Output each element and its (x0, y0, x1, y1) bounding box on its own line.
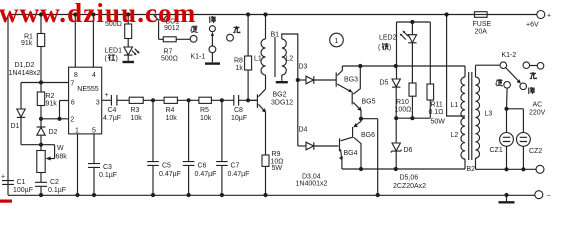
watermark red streak bottom left (0, 200, 12, 203)
wire bottom push-pull line y169 (342, 168, 465, 170)
node dots AC line (504, 167, 525, 171)
svg-text:L1: L1 (254, 56, 262, 63)
node dots y169 (359, 167, 398, 171)
node dot D3/D4 column top (296, 78, 300, 82)
terminal +6V (526, 11, 551, 29)
svg-text:L1: L1 (451, 102, 459, 109)
svg-text:3: 3 (96, 100, 100, 107)
diode D2 (37, 119, 58, 145)
svg-text:+: + (1, 174, 5, 181)
svg-text:1k: 1k (236, 65, 244, 72)
svg-text:C8: C8 (234, 107, 243, 114)
contact ting K1-1 (209, 26, 215, 32)
resistor R10 100ohm (395, 83, 417, 118)
wire collector bus y66 (342, 65, 465, 67)
transistor BG2 3DG12 (248, 75, 293, 155)
svg-text:CZ2: CZ2 (529, 148, 542, 155)
diode D3 (298, 64, 336, 84)
svg-text:D5,06: D5,06 (400, 175, 419, 182)
contact ni K1-2 (504, 82, 511, 89)
pole and arm K1-1 (209, 46, 216, 53)
svg-text:C3: C3 (103, 164, 112, 171)
wire K1-1 to ground (211, 53, 213, 63)
svg-text:1: 1 (75, 128, 79, 135)
svg-text:BG3: BG3 (344, 77, 358, 84)
node dots top rail (39, 12, 449, 16)
wire output node to down column (361, 119, 378, 195)
svg-text:C5: C5 (162, 163, 171, 170)
transistor BG6 (353, 119, 376, 169)
wire pin2 line (41, 118, 69, 120)
node dots on y66 (358, 64, 398, 68)
svg-text:L2: L2 (451, 132, 459, 139)
wire L2 top to D3/D4 column (282, 34, 298, 146)
wire D1-D2-wiper line (21, 144, 55, 146)
ground chassis bottom (499, 195, 515, 202)
svg-text:+: + (547, 13, 551, 20)
svg-text:−: − (547, 193, 551, 200)
svg-text:+6V: +6V (526, 22, 539, 29)
winding L2 of B1 (282, 39, 287, 75)
svg-text:BG2: BG2 (273, 92, 287, 99)
resistor R2 91k (37, 83, 57, 119)
fuse FUSE 20A (473, 12, 492, 36)
switch K1-2 (476, 52, 544, 94)
svg-text:D4: D4 (299, 127, 308, 134)
svg-text:50W: 50W (431, 119, 446, 126)
svg-text:R11: R11 (431, 102, 443, 109)
svg-text:C1: C1 (17, 179, 26, 186)
svg-text:8: 8 (74, 72, 78, 79)
svg-text:220V: 220V (529, 110, 546, 117)
svg-text:20A: 20A (475, 29, 488, 36)
svg-text:0.1µF: 0.1µF (99, 172, 117, 179)
svg-text:68k: 68k (56, 154, 68, 161)
svg-text:R9: R9 (272, 151, 281, 158)
ground chassis under B1 (276, 81, 288, 83)
terminal AC out (536, 165, 544, 173)
transistor BC1 9012 (154, 15, 180, 39)
node dot pin7/R2 (39, 80, 43, 84)
svg-text:C7: C7 (231, 163, 240, 170)
winding L1 of B2 (464, 66, 466, 77)
svg-text:B2: B2 (467, 166, 476, 173)
wire pin1 column (77, 134, 79, 195)
svg-text:D1,D2: D1,D2 (15, 62, 35, 69)
svg-text:2CZ20Ax2: 2CZ20Ax2 (393, 183, 426, 190)
svg-text:C4: C4 (108, 107, 117, 114)
LED LED2 (green) (378, 22, 417, 83)
capacitor C6 0.47uF (183, 100, 217, 195)
svg-text:L2: L2 (286, 56, 294, 63)
terminal minus (535, 191, 551, 200)
svg-text:1N4148x2: 1N4148x2 (9, 70, 41, 77)
svg-text:0.47µF: 0.47µF (228, 171, 250, 178)
node dot output emitters (359, 117, 363, 121)
node dot R3/R4 (151, 98, 155, 102)
transformer B2 (451, 65, 493, 173)
svg-text:500Ω: 500Ω (161, 56, 178, 63)
contact ting K1-2 (520, 83, 527, 90)
diode D4 (298, 127, 339, 150)
svg-text:10k: 10k (166, 115, 178, 122)
node dot R5/C8 (220, 98, 224, 102)
svg-text:10µF: 10µF (231, 115, 247, 122)
svg-text:R10: R10 (396, 99, 409, 106)
wire pin4 column (92, 15, 94, 68)
svg-text:91k: 91k (21, 40, 33, 47)
switch K1-1 (190, 16, 240, 64)
svg-text:R2: R2 (46, 93, 55, 100)
svg-text:0.1µF: 0.1µF (48, 187, 66, 194)
node dot BG2 base (246, 98, 250, 102)
resistor R5 10k (199, 97, 234, 122)
node dot W top (39, 143, 43, 147)
wire K1-2 ni contact to sockets (507, 88, 524, 133)
svg-text:K1-1: K1-1 (191, 54, 206, 61)
resistor R9 10ohm 5W (262, 151, 284, 195)
svg-text:6: 6 (71, 100, 75, 107)
resistor R11 0.1ohm 50W (427, 22, 445, 126)
node circled 1 (330, 33, 344, 47)
svg-text:L3: L3 (485, 111, 493, 118)
wire charge mid line y118 (396, 117, 430, 119)
svg-text:W: W (57, 145, 64, 152)
wire pin8 column (74, 15, 76, 68)
capacitor C8 10uF (231, 95, 256, 122)
svg-text:0.47µF: 0.47µF (159, 171, 181, 178)
svg-text:BG4: BG4 (344, 150, 358, 157)
node dot socket feed (504, 107, 508, 111)
svg-text:91k: 91k (46, 101, 58, 108)
svg-text:www.dziuu.com: www.dziuu.com (0, 0, 196, 28)
ground chassis under LED1 (123, 61, 135, 63)
capacitor C1 100uF (1, 174, 33, 195)
node dot LED2 top (410, 20, 414, 24)
label D1,D2 1N4148x2 (9, 62, 41, 77)
svg-text:NE555: NE555 (77, 86, 99, 93)
node dot R4/R5 (187, 98, 191, 102)
svg-text:BG5: BG5 (362, 99, 376, 106)
svg-text:10k: 10k (131, 115, 143, 122)
arm K1-2 (506, 68, 518, 81)
wire +6V to B2 center tap (447, 15, 465, 117)
transformer B1 (254, 15, 298, 147)
socket CZ1 (490, 133, 514, 170)
svg-text:BG6: BG6 (361, 132, 375, 139)
svg-text:LED2: LED2 (379, 35, 397, 42)
wire pin6 stub (60, 101, 69, 119)
svg-text:C2: C2 (50, 179, 59, 186)
svg-text:K1-2: K1-2 (502, 52, 517, 59)
top +6V rail (8, 14, 475, 16)
svg-text:5W: 5W (272, 165, 283, 172)
core B2 (469, 72, 472, 160)
contact chong K1-1 (227, 34, 234, 41)
svg-text:0.1Ω: 0.1Ω (429, 109, 444, 116)
socket CZ2 (517, 133, 543, 170)
svg-text:R7: R7 (164, 49, 173, 56)
svg-text:100Ω: 100Ω (395, 107, 412, 114)
svg-text:D1: D1 (11, 123, 20, 130)
wire charge top line y22 (397, 21, 431, 23)
bottom negative rail (8, 194, 535, 196)
LED LED1 (red) (105, 47, 140, 63)
contact ni K1-1 (190, 35, 197, 42)
svg-text:R8: R8 (234, 58, 243, 65)
svg-text:4.7µF: 4.7µF (103, 115, 121, 122)
pole contact K1-2 (500, 62, 507, 69)
transistor BG3 (336, 66, 358, 92)
node dots pin2 net (39, 117, 62, 121)
svg-text:D3: D3 (299, 64, 308, 71)
core B1 (274, 37, 276, 77)
transistor BG5 (352, 66, 375, 119)
resistor R4 10k (164, 97, 199, 122)
contact chong pair K1-2 (523, 62, 530, 69)
label D5,D6 2CZ20Ax2 (393, 175, 426, 191)
svg-text:D5: D5 (380, 80, 389, 87)
resistor R7 500ohm (159, 37, 191, 63)
svg-text:R4: R4 (166, 107, 175, 114)
diode D1 (11, 83, 26, 145)
svg-text:+: + (105, 92, 109, 99)
svg-text:LED1: LED1 (105, 48, 123, 55)
svg-text:D2: D2 (49, 129, 58, 136)
resistor R3 10k (129, 97, 164, 122)
winding L3 of B2 (475, 65, 477, 77)
svg-text:CZ1: CZ1 (490, 147, 503, 154)
resistor R8 1k (234, 15, 252, 101)
transistor BG4 (339, 137, 358, 169)
capacitor C5 0.47uF (147, 100, 181, 195)
svg-text:3DG12: 3DG12 (271, 100, 293, 107)
svg-text:): ) (116, 56, 118, 63)
wire AC output line (476, 168, 537, 170)
node dots bottom rail (39, 193, 509, 197)
wire L2 bottom to chassis (281, 75, 283, 81)
capacitor C7 0.47uF (216, 100, 249, 195)
svg-text:10k: 10k (200, 115, 212, 122)
svg-text:5: 5 (92, 128, 96, 135)
wire L3 top to K1-2 pole (476, 64, 501, 66)
left battery column wire (7, 15, 9, 196)
svg-text:7: 7 (70, 81, 74, 88)
svg-text:D6: D6 (404, 147, 413, 154)
op-amp/timer U1 NE555 (69, 67, 102, 134)
node dots y118 (394, 116, 414, 120)
winding L2 of B2 (lower half) (464, 159, 466, 169)
capacitor C4 4.7uF (102, 92, 130, 122)
svg-text:C6: C6 (198, 163, 207, 170)
ground chassis K1-1 (205, 62, 220, 64)
svg-text:R5: R5 (200, 107, 209, 114)
diode D6 zener (391, 118, 413, 169)
svg-text:2: 2 (70, 117, 74, 124)
svg-text:4: 4 (92, 72, 96, 79)
svg-text:0.47µF: 0.47µF (195, 171, 217, 178)
resistor 500ohm for LED1 (105, 15, 132, 48)
resistor R1 91k (21, 15, 45, 83)
svg-text:FUSE: FUSE (473, 21, 492, 28)
svg-text:AC: AC (533, 102, 543, 109)
svg-text:R3: R3 (131, 107, 140, 114)
label D3,D4 1N4001x2 (296, 174, 328, 188)
svg-text:100µF: 100µF (13, 187, 33, 194)
svg-text:1: 1 (335, 38, 339, 45)
potentiometer W 68k (37, 145, 67, 173)
wire pin7 line (21, 82, 69, 84)
svg-text:): ) (389, 45, 391, 52)
winding L1 of B1 (265, 15, 267, 40)
svg-text:1N4001x2: 1N4001x2 (296, 181, 328, 188)
diode D5 (380, 22, 401, 118)
capacitor C2 0.1uF (35, 173, 66, 196)
capacitor C3 0.1uF on pin5 (88, 134, 117, 195)
label AC 220V (529, 102, 546, 117)
svg-text:D3,04: D3,04 (302, 174, 321, 181)
